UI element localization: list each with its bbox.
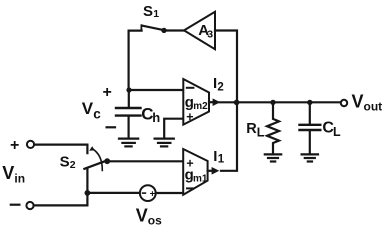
svg-text:m2: m2 bbox=[193, 101, 208, 112]
svg-text:1: 1 bbox=[218, 154, 225, 166]
label − (Vc bottom) bbox=[107, 126, 115, 128]
label Vin bbox=[2, 163, 25, 185]
wire: S2 to gm1 non-inverting input bbox=[110, 160, 183, 162]
svg-text:V: V bbox=[136, 206, 148, 226]
wire: Vos to gm1 inverting input bbox=[156, 192, 184, 194]
resistor RL bbox=[267, 102, 279, 154]
wire: S1 to A3 apex bbox=[167, 29, 184, 31]
ground at gm2 + input bbox=[155, 139, 174, 147]
op-amp A3 bbox=[184, 12, 215, 49]
svg-text:h: h bbox=[152, 110, 160, 125]
svg-text:3: 3 bbox=[207, 29, 213, 41]
label gm1 bbox=[185, 166, 208, 184]
switch S2 bbox=[84, 146, 110, 170]
label − (gm1 inverting) bbox=[187, 187, 194, 189]
svg-text:+: + bbox=[10, 137, 19, 154]
transconductance amp gm1 bbox=[183, 149, 207, 195]
node: CL junction bbox=[307, 100, 312, 105]
svg-text:c: c bbox=[93, 107, 101, 122]
svg-text:1: 1 bbox=[153, 8, 159, 20]
capacitor Ch bbox=[116, 90, 141, 138]
node: main output node bbox=[234, 100, 240, 106]
switch S1 bbox=[141, 25, 166, 33]
wire: main output line to Vout bbox=[220, 101, 341, 103]
label − (gm2 inverting) bbox=[187, 87, 194, 89]
label I2 bbox=[213, 75, 224, 94]
label S1 bbox=[143, 3, 159, 20]
terminal Vin − bbox=[11, 202, 34, 209]
label Ch bbox=[141, 105, 160, 125]
svg-text:S: S bbox=[143, 3, 153, 20]
wire: bottom junction to Vos bbox=[87, 192, 139, 194]
svg-text:+: + bbox=[186, 110, 193, 124]
svg-text:S: S bbox=[60, 153, 70, 170]
label RL bbox=[246, 121, 264, 140]
svg-text:+: + bbox=[103, 84, 112, 101]
source Vos bbox=[140, 185, 156, 201]
ground under CL bbox=[302, 154, 318, 161]
label + (gm1 non-inverting) bbox=[186, 156, 193, 170]
node: bottom junction bbox=[85, 190, 91, 196]
wire: Vin− to bottom junction bbox=[34, 193, 88, 206]
svg-text:I: I bbox=[213, 148, 217, 165]
label A3 bbox=[198, 22, 213, 41]
label I1 bbox=[213, 148, 225, 166]
wire: gm2 + input to ground bbox=[164, 119, 183, 139]
svg-text:in: in bbox=[14, 171, 25, 185]
label CL bbox=[322, 120, 341, 139]
wire+arrow: gm1 output current I1 bbox=[208, 167, 220, 175]
terminal Vin + bbox=[10, 137, 34, 154]
svg-text:V: V bbox=[2, 163, 14, 183]
label Vout bbox=[352, 92, 383, 114]
svg-text:V: V bbox=[82, 99, 94, 118]
label gm2 bbox=[185, 94, 208, 112]
wire: node to gm2 inverting input bbox=[129, 89, 183, 91]
label Vc bbox=[82, 99, 102, 122]
label + (Vc top) bbox=[103, 84, 112, 101]
node: RL junction bbox=[270, 100, 275, 105]
wire: left feedback vertical (Vc node up to S1) bbox=[129, 31, 142, 90]
wire+arrow: gm2 output current I2 bbox=[209, 98, 220, 106]
svg-text:V: V bbox=[352, 92, 364, 112]
node: Vc / Ch node bbox=[126, 87, 131, 92]
label S2 bbox=[60, 153, 76, 171]
wire: S2 pivot down to bottom junction bbox=[86, 169, 88, 193]
svg-text:2: 2 bbox=[70, 159, 76, 171]
label Vos bbox=[136, 206, 162, 228]
svg-text:2: 2 bbox=[217, 81, 223, 93]
wire: Vin+ to S2 top contact bbox=[34, 145, 87, 154]
transconductance amp gm2 bbox=[183, 79, 209, 125]
svg-text:os: os bbox=[148, 214, 162, 228]
svg-text:L: L bbox=[257, 126, 265, 140]
wire: A3 output right and down to output node bbox=[215, 31, 237, 101]
capacitor CL bbox=[300, 102, 321, 154]
label + (gm2 non-inverting) bbox=[186, 110, 193, 124]
ground under Ch bbox=[119, 139, 138, 147]
svg-text:out: out bbox=[364, 99, 383, 113]
svg-text:m1: m1 bbox=[193, 173, 208, 184]
terminal Vout bbox=[341, 100, 347, 106]
svg-text:R: R bbox=[246, 121, 257, 137]
svg-text:L: L bbox=[333, 125, 341, 139]
ground under RL bbox=[265, 154, 281, 161]
wire: output node column down to gm1 output corner bbox=[221, 104, 237, 171]
